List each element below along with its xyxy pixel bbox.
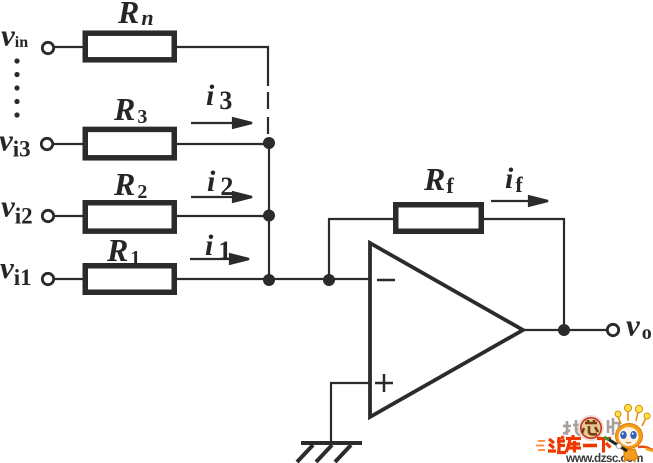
svg-text:Rn: Rn [117,0,154,30]
